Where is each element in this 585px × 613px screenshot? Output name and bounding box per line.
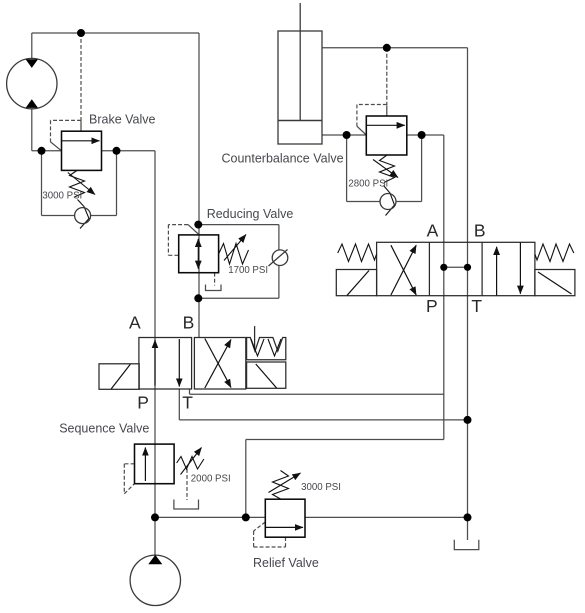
svg-text:B: B: [474, 221, 486, 241]
svg-text:P: P: [426, 296, 438, 316]
svg-text:3000 PSI: 3000 PSI: [42, 190, 82, 201]
svg-text:Sequence Valve: Sequence Valve: [59, 421, 149, 435]
svg-text:A: A: [129, 313, 141, 333]
svg-text:A: A: [427, 221, 439, 241]
svg-text:Counterbalance Valve: Counterbalance Valve: [222, 151, 344, 165]
svg-text:2000 PSI: 2000 PSI: [191, 473, 231, 484]
svg-text:T: T: [182, 393, 193, 413]
svg-text:B: B: [183, 313, 195, 333]
svg-text:3000 PSI: 3000 PSI: [301, 482, 341, 493]
svg-text:Relief Valve: Relief Valve: [253, 556, 319, 570]
svg-text:T: T: [471, 296, 482, 316]
svg-text:2800 PSI: 2800 PSI: [348, 178, 388, 189]
svg-text:Reducing Valve: Reducing Valve: [207, 207, 294, 221]
svg-text:1700 PSI: 1700 PSI: [228, 265, 268, 276]
svg-text:P: P: [137, 393, 149, 413]
svg-text:Brake Valve: Brake Valve: [89, 112, 156, 126]
